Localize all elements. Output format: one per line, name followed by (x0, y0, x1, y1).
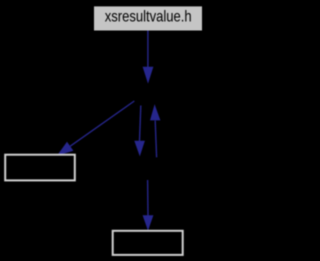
edge xsresultvalue.h -> node B (vertical arrow) (143, 31, 154, 84)
node xsresultvalue.h (current file, grey box) (94, 6, 202, 30)
node bottom box (empty outlined node) (113, 231, 183, 255)
svg-text:xsresultvalue.h: xsresultvalue.h (105, 9, 192, 27)
node left box (empty outlined node) (5, 155, 75, 181)
edge node C -> node B (up arrow of cycle) (150, 104, 160, 157)
edge node B -> node C (down arrow of cycle) (134, 106, 145, 157)
edge node B -> left box (diagonal arrow) (57, 101, 134, 156)
edge node C -> bottom box (vertical arrow) (143, 180, 154, 231)
